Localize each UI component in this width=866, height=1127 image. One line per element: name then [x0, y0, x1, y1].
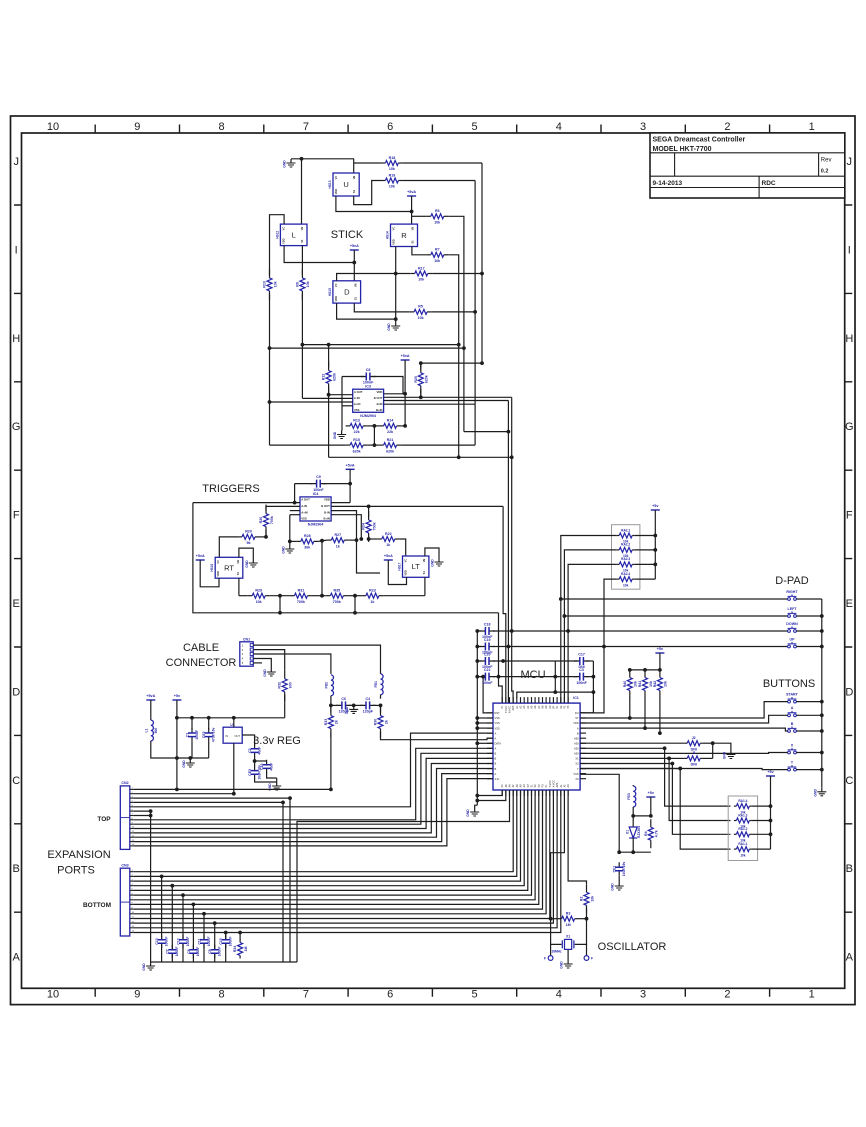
junction: [820, 713, 824, 717]
junction: [188, 756, 192, 760]
resistor R4: [644, 819, 659, 848]
wire: [384, 403, 476, 405]
junction: [475, 716, 479, 720]
svg-text:C20: C20: [484, 653, 491, 657]
svg-text:2k: 2k: [335, 720, 339, 724]
capacitor C8: [187, 945, 200, 959]
wire: [635, 578, 656, 580]
svg-text:S1: S1: [236, 572, 240, 576]
wire: [284, 246, 354, 263]
wire: [477, 727, 493, 729]
MCU IC1: [487, 696, 586, 796]
capacitor C11: [197, 935, 210, 949]
wire: [331, 505, 503, 507]
wire: [255, 760, 267, 762]
junction: [553, 690, 557, 694]
resistor RA1.4: [734, 799, 752, 814]
svg-text:A50: A50: [574, 747, 579, 751]
svg-text:CE3: CE3: [248, 769, 252, 776]
wire: [474, 181, 476, 312]
resistor R41: [638, 671, 653, 698]
svg-text:5: 5: [471, 121, 477, 133]
switch LEFT: [788, 607, 798, 618]
junction: [678, 767, 682, 771]
junction: [501, 659, 505, 663]
wire: [477, 660, 481, 662]
svg-text:X2: X2: [575, 762, 579, 766]
svg-text:A+IN: A+IN: [301, 510, 307, 514]
junction: [649, 814, 653, 818]
wire: [821, 599, 823, 788]
wire: [276, 778, 278, 782]
svg-text:C13: C13: [155, 938, 159, 944]
svg-text:R20: R20: [245, 530, 252, 534]
wire: [586, 676, 594, 678]
wire: [177, 717, 285, 719]
svg-text:D-PAD: D-PAD: [775, 575, 808, 587]
power +5v: [646, 791, 655, 805]
svg-text:C17: C17: [578, 653, 585, 657]
junction: [278, 594, 282, 598]
wire: [499, 613, 503, 703]
wire: [580, 742, 685, 744]
ground: [431, 558, 444, 567]
wire CN3 pin7 to MCU: [133, 790, 535, 900]
junction: [394, 317, 398, 321]
junction: [379, 704, 383, 708]
svg-text:C: C: [12, 775, 20, 787]
svg-text:IC4: IC4: [313, 492, 319, 496]
wire: [586, 660, 594, 662]
svg-text:MODEL HKT-7700: MODEL HKT-7700: [653, 146, 712, 153]
wire: [713, 743, 731, 750]
wire: [255, 779, 277, 783]
wire: [266, 505, 300, 507]
wire: [796, 769, 821, 771]
svg-text:X: X: [791, 743, 794, 747]
svg-text:SEGA Dreamcast Controller: SEGA Dreamcast Controller: [653, 137, 746, 144]
junction: [507, 645, 511, 649]
wire: [508, 646, 787, 648]
resistor R18: [381, 156, 403, 171]
resistor R42: [653, 671, 668, 698]
svg-text:J: J: [847, 156, 853, 168]
wire: [349, 477, 351, 503]
svg-text:16MHz: 16MHz: [551, 950, 562, 954]
wire CN2 pin3: [133, 797, 290, 799]
wire: [412, 247, 426, 255]
wire: [580, 702, 788, 718]
svg-text:DNI: DNI: [691, 763, 697, 767]
svg-text:B+IN: B+IN: [376, 408, 382, 412]
svg-text:VDD: VDD: [376, 390, 382, 394]
junction: [473, 310, 477, 314]
svg-text:U: U: [343, 180, 348, 189]
wire: [219, 537, 237, 557]
junction: [475, 799, 479, 803]
ground: [142, 962, 155, 971]
wire: [580, 715, 788, 723]
resistor R34: [233, 940, 248, 959]
svg-text:T-VCC: T-VCC: [505, 705, 508, 712]
switch RIGHT: [786, 590, 798, 601]
wire: [618, 876, 620, 882]
junction: [320, 594, 324, 598]
svg-text:C1: C1: [185, 733, 189, 737]
power +5vA: [146, 694, 155, 708]
switch DOWN: [786, 622, 798, 633]
svg-text:UP: UP: [790, 637, 796, 641]
svg-text:3: 3: [640, 121, 646, 133]
junction: [678, 767, 682, 771]
wire: [239, 595, 248, 597]
wire: [242, 735, 254, 745]
junction: [320, 539, 324, 543]
svg-text:L: L: [292, 230, 296, 239]
junction: [653, 534, 657, 538]
wire: [353, 258, 355, 281]
svg-text:GND: GND: [263, 669, 267, 677]
svg-text:GND: GND: [611, 883, 615, 891]
svg-text:10k: 10k: [273, 281, 277, 287]
svg-text:VB: VB: [422, 559, 426, 563]
title block: [650, 133, 845, 198]
wire CN3 pin13 to MCU: [133, 790, 557, 928]
wire: [752, 848, 771, 850]
junction: [327, 393, 331, 397]
junction: [410, 210, 414, 214]
junction: [288, 540, 292, 544]
wire: [189, 758, 191, 759]
svg-text:C8: C8: [187, 949, 191, 953]
svg-text:R19: R19: [389, 173, 396, 177]
wire: [403, 180, 475, 182]
wire: [225, 933, 227, 963]
wire: [477, 646, 481, 648]
ground: [813, 788, 826, 797]
svg-text:S1: S1: [422, 571, 426, 575]
svg-text:R2: R2: [580, 896, 584, 901]
wire CN3 pin10 to MCU: [133, 790, 546, 914]
svg-text:3: 3: [640, 989, 646, 1001]
wire: [579, 918, 586, 920]
wire: [171, 886, 173, 962]
wire: [458, 345, 460, 458]
svg-text:STICK: STICK: [331, 229, 364, 241]
junction: [820, 700, 824, 704]
svg-text:4.7k: 4.7k: [655, 830, 659, 837]
svg-text:PORTS: PORTS: [57, 865, 95, 877]
junction: [475, 721, 479, 725]
svg-text:S1: S1: [411, 240, 415, 244]
svg-text:RA2.2: RA2.2: [621, 543, 630, 547]
svg-text:VDD: VDD: [334, 296, 338, 302]
wire: [381, 732, 494, 740]
svg-text:B OUT: B OUT: [374, 396, 383, 400]
wire: [239, 548, 253, 559]
wire: [161, 876, 163, 962]
wire: [575, 919, 587, 945]
resistor R10: [263, 269, 278, 300]
ground: [333, 431, 346, 440]
connector CN2 (TOP): [120, 781, 134, 849]
svg-text:R18: R18: [389, 156, 396, 160]
svg-text:Y: Y: [577, 767, 579, 771]
wire: [796, 630, 821, 632]
svg-text:DATA: DATA: [495, 742, 502, 746]
regulator U1 (3.3v): [223, 723, 242, 743]
wire: [284, 695, 286, 718]
capacitor C2: [248, 744, 261, 758]
wire: [368, 444, 380, 446]
svg-text:Rev: Rev: [821, 158, 832, 164]
svg-text:OSCILLATOR: OSCILLATOR: [598, 941, 667, 953]
svg-text:R40: R40: [623, 681, 627, 688]
junction: [170, 884, 174, 888]
svg-text:R14: R14: [387, 419, 394, 423]
svg-text:600: 600: [154, 728, 158, 734]
svg-text:TOP: TOP: [97, 816, 111, 823]
wire: [424, 577, 426, 595]
svg-text:100nF: 100nF: [196, 947, 200, 957]
ground: [245, 559, 258, 568]
svg-text:S1: S1: [352, 189, 356, 193]
svg-text:VSS: VSS: [301, 517, 307, 521]
svg-text:R27: R27: [335, 533, 342, 537]
svg-text:R17: R17: [418, 266, 425, 270]
svg-text:VDD: VDD: [334, 189, 338, 195]
junction: [820, 645, 824, 649]
wire: [289, 515, 291, 534]
svg-text:DOWN: DOWN: [786, 622, 798, 626]
wire: [564, 550, 616, 703]
wire: [580, 728, 788, 731]
capacitor C21: [479, 668, 495, 685]
svg-text:6: 6: [387, 989, 393, 1001]
junction: [769, 819, 773, 823]
wire: [383, 595, 425, 597]
svg-text:AVS: AVS: [512, 705, 515, 710]
svg-text:A: A: [577, 726, 579, 730]
svg-text:A-VCC: A-VCC: [509, 705, 512, 713]
wire: [289, 798, 291, 962]
svg-text:CN3: CN3: [121, 863, 128, 867]
svg-text:10k: 10k: [418, 278, 424, 282]
svg-text:4: 4: [556, 989, 562, 1001]
wire: [337, 303, 396, 319]
wire: [373, 426, 375, 445]
junction: [475, 659, 479, 663]
svg-text:LEFT: LEFT: [788, 607, 798, 611]
junction: [592, 675, 596, 679]
svg-text:R4: R4: [644, 831, 648, 836]
section labels: [47, 229, 815, 953]
svg-text:1k: 1k: [336, 544, 340, 548]
wire: [323, 483, 351, 485]
wire: [629, 697, 631, 718]
wire: [193, 503, 499, 613]
wire: [349, 539, 357, 541]
svg-text:R7: R7: [435, 248, 440, 252]
wire: [554, 661, 556, 692]
svg-text:10k: 10k: [256, 600, 262, 604]
power +5vA: [407, 190, 416, 204]
resistor R26: [259, 505, 274, 536]
wire: [238, 578, 240, 596]
svg-text:1M: 1M: [244, 947, 248, 952]
svg-text:MCU: MCU: [520, 669, 545, 681]
capacitor C8: [360, 368, 376, 385]
resistor R22: [377, 532, 399, 547]
junction: [592, 690, 596, 694]
wire: [796, 714, 821, 716]
junction: [563, 614, 567, 618]
wire CN1 pin5: [253, 662, 262, 664]
svg-text:R6: R6: [435, 209, 440, 213]
svg-text:+5vA: +5vA: [350, 244, 359, 248]
wire: [349, 704, 363, 706]
power +5vA: [401, 354, 410, 368]
junction: [631, 814, 635, 818]
svg-text:HS13: HS13: [328, 180, 332, 188]
wire: [331, 704, 338, 706]
resistor R2: [580, 884, 595, 913]
svg-text:R28: R28: [304, 534, 311, 538]
wire: [555, 660, 577, 662]
wire: [182, 895, 184, 962]
svg-text:GND: GND: [431, 559, 435, 567]
capacitor C10: [260, 760, 273, 774]
op-amp IC3: [353, 384, 384, 418]
capacitor C17: [574, 653, 590, 670]
svg-text:CN1: CN1: [243, 637, 250, 641]
wire: [659, 697, 661, 733]
wire: [354, 181, 381, 205]
svg-text:X0: X0: [575, 777, 579, 781]
svg-text:GND: GND: [142, 963, 146, 971]
svg-text:100nF: 100nF: [164, 937, 168, 947]
svg-text:VB: VB: [354, 283, 358, 287]
wire: [448, 255, 458, 345]
svg-text:B: B: [577, 731, 579, 735]
junction: [667, 757, 671, 761]
svg-text:VSS: VSS: [573, 772, 578, 776]
junction: [602, 645, 606, 649]
connector CN3 (BOTTOM): [120, 863, 134, 936]
junction: [617, 850, 621, 854]
junction: [367, 505, 371, 509]
resistor RA2.2: [617, 543, 635, 558]
junction: [253, 759, 257, 763]
wire CN3 pin9 to MCU: [133, 790, 542, 909]
capacitor C13: [155, 935, 168, 949]
svg-text:NJM2904: NJM2904: [308, 523, 324, 527]
svg-text:CN2: CN2: [121, 781, 128, 785]
svg-text:9k: 9k: [247, 541, 251, 545]
wire CN3 pin4 to MCU: [133, 790, 524, 886]
svg-text:START: START: [786, 692, 799, 696]
junction: [329, 704, 333, 708]
svg-text:+5vA: +5vA: [146, 694, 155, 698]
svg-text:+5v: +5v: [767, 770, 774, 774]
svg-text:+5vA: +5vA: [196, 554, 205, 558]
wire: [659, 661, 661, 670]
wire CN3 pin8 to MCU: [133, 790, 539, 904]
wire: [270, 444, 346, 446]
svg-text:J2: J2: [692, 736, 696, 740]
svg-text:100nF: 100nF: [363, 381, 374, 385]
capacitor C20: [479, 653, 495, 670]
junction: [510, 629, 514, 633]
resistor R33: [324, 707, 339, 738]
svg-text:VB: VB: [411, 227, 415, 231]
junction: [175, 788, 179, 792]
svg-text:RA1.3: RA1.3: [738, 813, 747, 817]
junction: [268, 400, 272, 404]
svg-text:100nF: 100nF: [313, 488, 324, 492]
svg-text:B: B: [846, 863, 853, 875]
power +5v: [651, 504, 660, 518]
svg-text:C7: C7: [166, 949, 170, 953]
svg-text:E: E: [13, 598, 20, 610]
svg-text:10k: 10k: [590, 896, 594, 902]
wire: [289, 534, 291, 545]
junction: [293, 501, 297, 505]
svg-text:36k: 36k: [304, 546, 310, 550]
wire: [302, 397, 352, 399]
wire: [796, 701, 821, 703]
wire: [176, 708, 178, 790]
svg-text:R32: R32: [278, 682, 282, 689]
capacitor C6: [336, 697, 352, 714]
resistor R27: [327, 533, 349, 548]
junction: [667, 757, 671, 761]
svg-text:FB2: FB2: [325, 682, 329, 689]
junction: [711, 741, 715, 745]
resistor R14: [379, 419, 401, 434]
wire: [368, 536, 370, 539]
resistor R13: [346, 419, 368, 434]
ground: [182, 759, 195, 768]
wire: [368, 425, 380, 427]
wire: [412, 215, 427, 217]
junction: [631, 850, 635, 854]
svg-text:S1: S1: [354, 296, 358, 300]
wire: [403, 162, 482, 164]
svg-text:+5v: +5v: [648, 791, 655, 795]
capacitor C3: [574, 668, 590, 685]
junction: [353, 611, 357, 615]
wire: [191, 742, 193, 758]
svg-text:A: A: [13, 952, 21, 964]
capacitor CE2: [202, 727, 215, 742]
svg-text:600: 600: [289, 682, 293, 688]
junction: [658, 668, 662, 672]
svg-text:RDC: RDC: [762, 180, 776, 187]
resistor R20: [238, 530, 260, 545]
wire CN2 pin12 to MCU: [133, 769, 493, 838]
wire: [448, 216, 464, 348]
resistor array RA2 box: [612, 525, 640, 590]
switch START: [786, 692, 799, 703]
svg-text:+5v: +5v: [652, 504, 659, 508]
svg-text:+5vA: +5vA: [384, 554, 393, 558]
svg-text:10k: 10k: [418, 316, 424, 320]
wire: [580, 764, 730, 835]
svg-text:10k: 10k: [623, 583, 629, 587]
svg-text:A-VCC: A-VCC: [552, 780, 555, 788]
wire: [302, 344, 458, 346]
